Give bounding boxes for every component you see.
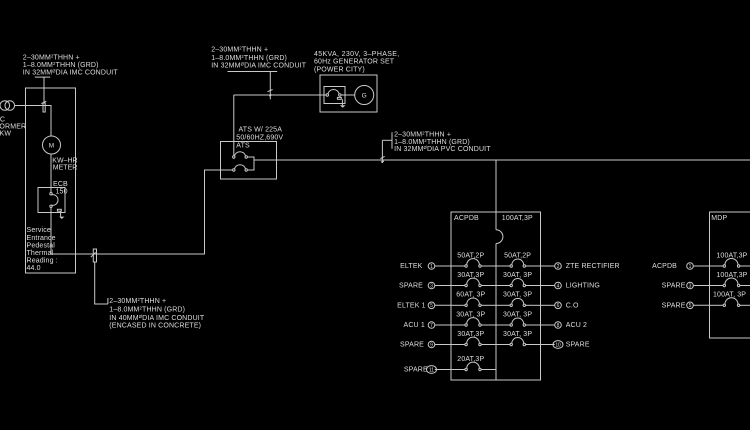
branch breaker 30AT, 3P ckt 8 (496, 311, 541, 326)
ATS label (236, 126, 283, 149)
svg-text:SPARE: SPARE (662, 303, 686, 310)
circuit 10 tag (541, 341, 590, 349)
svg-text:LIGHTING: LIGHTING (566, 283, 600, 290)
svg-text:(ENCASED IN CONCRETE): (ENCASED IN CONCRETE) (109, 322, 201, 329)
main feeder callout (PVC) (394, 130, 491, 153)
svg-text:MDP: MDP (711, 215, 727, 222)
circuit 11 tag (404, 366, 451, 374)
svg-text:SPARE: SPARE (399, 283, 423, 290)
svg-text:30AT, 3P: 30AT, 3P (456, 311, 485, 318)
panel ACPDB box (451, 212, 541, 380)
svg-text:ACPDB: ACPDB (652, 263, 677, 270)
panel name ACPDB (454, 215, 479, 222)
feeder callout (IMC) (23, 53, 119, 76)
circuit 2 tag (541, 263, 620, 271)
conduit tick (380, 156, 384, 162)
service pedestal label (27, 227, 58, 272)
underground feeder callout (109, 296, 205, 329)
svg-text:8: 8 (557, 323, 560, 329)
MDP breaker 100AT,3P ckt 3 (710, 272, 750, 287)
panel divider (495, 212, 497, 380)
svg-text:KW: KW (0, 130, 11, 137)
wire service to ATS (51, 170, 233, 254)
ground link (57, 209, 61, 216)
pole transformer (0, 101, 15, 111)
ATS switch normal (233, 152, 248, 158)
branch breaker 50AT,2P ckt 2 (496, 252, 541, 267)
branch breaker 30AT, 3P ckt 6 (496, 292, 541, 307)
svg-text:3: 3 (430, 283, 433, 289)
svg-text:ELTEK: ELTEK (400, 263, 423, 270)
svg-text:50/60HZ,690V: 50/60HZ,690V (236, 134, 283, 141)
panel name MDP (711, 215, 727, 222)
svg-text:5: 5 (689, 303, 692, 309)
svg-text:IN 32MMØDIA IMC CONDUIT: IN 32MMØDIA IMC CONDUIT (23, 68, 119, 76)
svg-text:.C: .C (0, 116, 5, 123)
svg-text:100AT,3P: 100AT,3P (716, 272, 747, 279)
branch breaker 30AT,3P ckt 9 (451, 331, 496, 346)
ECB label (53, 181, 68, 195)
svg-text:(POWER CITY): (POWER CITY) (314, 66, 365, 73)
svg-text:ZTE RECTIFIER: ZTE RECTIFIER (566, 263, 620, 270)
svg-text:G: G (362, 93, 367, 100)
branch breaker 30AT, 3P ckt 4 (496, 272, 541, 287)
circuit 8 tag (541, 322, 588, 330)
wire generator to ATS (234, 95, 326, 155)
svg-text:30AT, 3P: 30AT, 3P (503, 311, 532, 318)
svg-text:ACU 1: ACU 1 (404, 322, 425, 329)
svg-text:Service: Service (27, 227, 51, 234)
breaker ECB 150 box (38, 188, 65, 213)
svg-text:150: 150 (56, 189, 68, 196)
generator G (355, 86, 374, 105)
meter label (52, 158, 77, 172)
circuit 3 tag (399, 282, 451, 290)
svg-text:50AT,2P: 50AT,2P (504, 252, 531, 259)
service entrance pedestal box (26, 88, 76, 273)
wire breaker to G (341, 94, 355, 96)
wire meter to ECB (50, 154, 52, 193)
svg-text:100AT,3P: 100AT,3P (716, 252, 747, 259)
wire transformer to meter (15, 106, 51, 137)
svg-text:6: 6 (557, 303, 560, 309)
svg-text:SPARE: SPARE (404, 367, 428, 374)
svg-text:C.O: C.O (566, 303, 579, 310)
ground (340, 105, 346, 108)
ATS output bracket (247, 157, 254, 170)
ground (59, 217, 64, 219)
svg-text:METER: METER (53, 165, 78, 172)
circuit 4 tag (541, 282, 600, 290)
leader line (35, 77, 50, 103)
leader line (95, 263, 108, 305)
svg-text:1: 1 (689, 264, 692, 270)
circuit 6 tag (541, 302, 580, 310)
MDP breaker 100AT,3P ckt 5 (710, 292, 750, 307)
ATS switch emergency (233, 165, 248, 171)
svg-text:10: 10 (555, 342, 561, 348)
svg-text:100AT,3P: 100AT,3P (502, 215, 533, 222)
svg-text:IN 32MMØDIA PVC CONDUIT: IN 32MMØDIA PVC CONDUIT (394, 145, 491, 153)
svg-text:1–8.0MM2THHN (GRD): 1–8.0MM2THHN (GRD) (211, 54, 287, 62)
breaker ECB 150 (50, 193, 58, 208)
svg-text:44.0: 44.0 (27, 265, 41, 272)
svg-text:ATS: ATS (236, 142, 250, 149)
svg-text:1–8.0MM2THHN (GRD): 1–8.0MM2THHN (GRD) (23, 60, 99, 68)
generator feeder callout (IMC) (211, 45, 307, 69)
svg-text:FORMER: FORMER (0, 123, 26, 130)
svg-text:IN 40MMØDIA IMC CONDUIT: IN 40MMØDIA IMC CONDUIT (109, 314, 205, 322)
svg-text:7: 7 (430, 323, 433, 329)
svg-text:3: 3 (689, 283, 692, 289)
ATS box (221, 142, 277, 180)
svg-text:1–8.0MM2THHN (GRD): 1–8.0MM2THHN (GRD) (109, 305, 185, 313)
generator set box (320, 75, 377, 112)
conduit tick (41, 101, 46, 112)
svg-text:ATS W/ 225A: ATS W/ 225A (239, 126, 283, 133)
MDP circuit 3 tag (662, 282, 710, 290)
svg-text:4: 4 (557, 283, 560, 289)
conduit tick (268, 90, 273, 96)
branch breaker 30AT, 3P ckt 7 (451, 311, 496, 326)
svg-text:100AT, 3P: 100AT, 3P (713, 292, 746, 299)
leader line (228, 72, 278, 100)
svg-text:45KVA, 230V, 3–PHASE,: 45KVA, 230V, 3–PHASE, (314, 51, 400, 58)
kw-hr meter M (43, 136, 61, 154)
MDP circuit 5 tag (662, 302, 710, 310)
svg-text:30AT, 3P: 30AT, 3P (503, 272, 532, 279)
svg-text:50AT,2P: 50AT,2P (457, 252, 484, 259)
svg-text:30AT, 3P: 30AT, 3P (503, 331, 532, 338)
svg-text:2: 2 (557, 264, 560, 270)
MDP breaker 100AT,3P ckt 1 (710, 252, 750, 267)
svg-text:Reading :: Reading : (27, 257, 58, 264)
panel MDP box (710, 212, 750, 338)
main breaker label (502, 215, 533, 222)
circuit 1 tag (400, 263, 451, 271)
svg-text:20AT,3P: 20AT,3P (457, 356, 484, 363)
circuit 9 tag (400, 341, 451, 349)
svg-text:1–8.0MM2THHN (GRD): 1–8.0MM2THHN (GRD) (394, 138, 470, 146)
main breaker 100AT,3P (496, 230, 503, 244)
svg-text:30AT,3P: 30AT,3P (457, 272, 484, 279)
generator label (314, 51, 400, 74)
svg-text:9: 9 (430, 342, 433, 348)
branch breaker 60AT, 3P ckt 5 (451, 292, 496, 307)
branch breaker 30AT, 3P ckt 10 (496, 331, 541, 346)
svg-text:Thermal: Thermal (27, 250, 54, 257)
wire main bus (254, 159, 750, 161)
svg-text:SPARE: SPARE (400, 342, 424, 349)
svg-text:M: M (49, 143, 54, 150)
branch breaker 50AT,2P ckt 1 (451, 252, 496, 267)
circuit 7 tag (404, 322, 451, 330)
svg-text:SPARE: SPARE (566, 342, 590, 349)
MDP circuit 1 tag (652, 263, 709, 271)
svg-text:30AT,3P: 30AT,3P (457, 331, 484, 338)
svg-text:60AT, 3P: 60AT, 3P (456, 292, 485, 299)
svg-text:SPARE: SPARE (662, 283, 686, 290)
svg-text:60Hz GENERATOR SET: 60Hz GENERATOR SET (314, 59, 395, 66)
conduit tick (91, 249, 97, 262)
transformer label (clipped) (0, 116, 26, 137)
svg-text:ACU 2: ACU 2 (566, 322, 587, 329)
branch breaker 30AT,3P ckt 3 (451, 272, 496, 287)
svg-text:5: 5 (430, 303, 433, 309)
svg-text:11: 11 (429, 367, 434, 373)
svg-text:ACPDB: ACPDB (454, 215, 479, 222)
circuit 5 tag (397, 302, 451, 310)
branch breaker 20AT,3P ckt 11 (451, 356, 496, 371)
svg-text:ELTEK 1: ELTEK 1 (397, 303, 426, 310)
svg-text:1: 1 (430, 264, 433, 270)
wire bus to ACPDB (495, 160, 497, 212)
ground link (337, 97, 342, 105)
wire ECB to service run (50, 208, 52, 255)
generator breaker box (324, 87, 345, 104)
leader line (382, 132, 392, 163)
generator breaker (326, 90, 341, 97)
svg-text:30AT, 3P: 30AT, 3P (503, 292, 532, 299)
svg-text:IN 32MMØDIA IMC CONDUIT: IN 32MMØDIA IMC CONDUIT (211, 61, 307, 69)
